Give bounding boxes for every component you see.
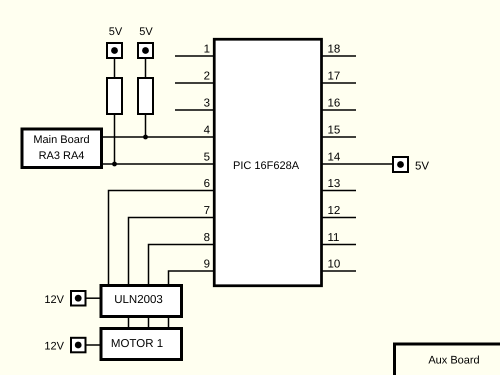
wire pin15 (321, 136, 356, 138)
wire pin7 to ULN2003 (129, 218, 215, 286)
svg-text:11: 11 (328, 232, 340, 244)
connector J2 5V (top, second) (138, 43, 153, 58)
svg-text:5V: 5V (139, 26, 153, 38)
connector J3 5V (right of pin14) (393, 157, 408, 172)
wire pin18 (321, 55, 356, 57)
wire pin13 (321, 190, 356, 192)
svg-text:1: 1 (204, 44, 210, 56)
wire J1 to R1 (114, 58, 116, 78)
connector J5 pin dot (75, 342, 82, 349)
wire J2 to R2 (145, 58, 147, 78)
connector J5 12V (71, 338, 86, 353)
svg-text:5V: 5V (415, 161, 429, 173)
wire R1 to pin5 net (114, 114, 116, 164)
svg-text:4: 4 (204, 125, 211, 137)
wire pin8 to ULN2003 (149, 245, 215, 286)
connector J1 5V (top left) (107, 43, 122, 58)
wire ULN2003 to MOTOR1 (b) (148, 316, 150, 329)
svg-text:ULN2003: ULN2003 (114, 294, 163, 306)
svg-text:Main Board: Main Board (33, 134, 89, 146)
svg-text:15: 15 (328, 125, 341, 137)
svg-text:10: 10 (328, 259, 341, 271)
op IC U1 PIC 16F628A body (214, 39, 321, 286)
connector J2 pin dot (142, 47, 149, 54)
wire pin11 (321, 244, 356, 246)
wire ULN2003 to MOTOR1 (a) (128, 316, 130, 329)
svg-text:12: 12 (328, 205, 341, 217)
svg-text:7: 7 (204, 205, 210, 217)
wire R2 to pin4 net (145, 114, 147, 137)
svg-text:18: 18 (328, 44, 341, 56)
wire pin16 (321, 109, 356, 111)
wire ULN2003 to MOTOR1 (c) (168, 316, 170, 329)
svg-text:8: 8 (204, 232, 210, 244)
svg-text:5V: 5V (109, 26, 123, 38)
connector J4 12V (71, 291, 86, 306)
svg-text:6: 6 (204, 178, 210, 190)
wire pin3 (175, 109, 214, 111)
svg-text:12V: 12V (44, 294, 64, 306)
svg-text:3: 3 (204, 98, 210, 110)
wire pin17 (321, 82, 356, 84)
svg-text:12V: 12V (44, 341, 64, 353)
svg-text:16: 16 (328, 98, 341, 110)
wire pin1 (175, 55, 214, 57)
wire RA4 net (Main Board to pin5) (102, 163, 214, 165)
wire pin9 to ULN2003 (169, 271, 215, 285)
resistor R2 (138, 78, 153, 114)
wire pin14 to 5V connector (321, 163, 393, 165)
svg-text:9: 9 (204, 259, 210, 271)
junction dot on pin4 net (143, 135, 148, 140)
svg-text:2: 2 (204, 71, 210, 83)
Main Board block (22, 129, 102, 168)
connector J4 pin dot (75, 295, 82, 302)
svg-text:14: 14 (328, 152, 341, 164)
wire pin10 (321, 270, 356, 272)
svg-text:Aux Board: Aux Board (428, 355, 479, 367)
resistor R1 (107, 78, 122, 114)
svg-text:17: 17 (328, 71, 341, 83)
motor M1 MOTOR 1 body (101, 329, 182, 360)
wire pin6 to ULN2003 (109, 191, 215, 286)
svg-text:MOTOR 1: MOTOR 1 (111, 338, 163, 350)
connector J1 pin dot (111, 47, 118, 54)
Aux Board block (395, 344, 500, 375)
svg-text:13: 13 (328, 178, 341, 190)
svg-text:PIC 16F628A: PIC 16F628A (233, 160, 300, 172)
wire pin12 (321, 217, 356, 219)
connector J3 pin dot (397, 161, 404, 168)
wire RA3 net (Main Board to pin4) (102, 136, 214, 138)
wire pin2 (175, 82, 214, 84)
wire J5 to MOTOR1 (86, 344, 101, 346)
junction dot on pin5 net (112, 162, 117, 167)
svg-text:RA3 RA4: RA3 RA4 (39, 150, 85, 162)
driver U2 ULN2003 body (101, 286, 182, 317)
svg-text:5: 5 (204, 152, 210, 164)
wire J4 to ULN2003 (86, 297, 101, 299)
